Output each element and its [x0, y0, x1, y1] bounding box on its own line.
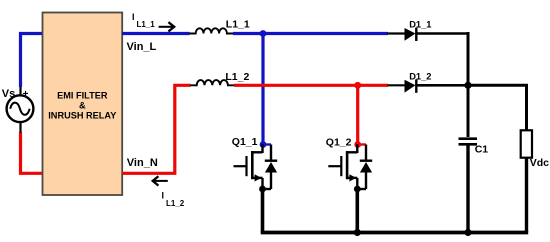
current arrow I_L1_2	[153, 176, 168, 185]
wire blue Q1_1 drain branch	[261, 34, 264, 145]
node drain blue dot	[260, 141, 267, 148]
svg-text:L1_1: L1_1	[226, 18, 250, 30]
node rail junction Q1_2	[354, 229, 361, 236]
diode D1_2	[388, 79, 469, 92]
svg-text:Vs: Vs	[2, 88, 15, 100]
svg-text:I: I	[132, 12, 135, 22]
mosfet Q1_1	[234, 141, 278, 192]
svg-text:C1: C1	[475, 144, 489, 156]
svg-text:D1_1: D1_1	[409, 20, 431, 30]
svg-text:L1_2: L1_2	[225, 71, 249, 83]
svg-text:Vdc: Vdc	[530, 157, 549, 169]
svg-text:L1_1: L1_1	[137, 20, 156, 29]
svg-text:Vin_L: Vin_L	[127, 41, 157, 53]
node rail junction C1	[464, 229, 471, 236]
load Vdc	[521, 130, 532, 232]
wire DC bus to Vdc branch	[468, 85, 527, 130]
mosfet Q1_2	[328, 141, 372, 192]
wire red inductor L1_2 to diode D1_2	[234, 84, 388, 87]
node drain red dot	[354, 141, 361, 148]
wire blue inductor L1_1 to diode D1_1	[233, 32, 388, 35]
svg-text:D1_2: D1_2	[409, 72, 431, 82]
svg-text:Q1_1: Q1_1	[232, 136, 258, 148]
svg-text:L1_2: L1_2	[166, 199, 185, 208]
wire blue Vin_L to inductor L1_1	[122, 32, 190, 35]
wire D1_1 output down to DC bus node	[467, 34, 468, 138]
wire bottom return rail	[261, 231, 529, 235]
node blue junction on top line	[260, 30, 267, 37]
body diode of Q1_1	[270, 145, 272, 162]
body diode of Q1_2	[365, 145, 367, 162]
inductor L1_1	[189, 28, 234, 33]
node red junction on second line	[354, 82, 361, 89]
current label I_L1_2	[162, 191, 185, 208]
svg-text:I: I	[162, 191, 165, 201]
current label I_L1_1	[132, 12, 155, 29]
node DC bus junction	[464, 82, 471, 89]
current arrow I_L1_1	[159, 22, 175, 31]
svg-text:INRUSH RELAY: INRUSH RELAY	[48, 110, 116, 120]
wire red Q1_2 drain branch	[356, 85, 359, 144]
svg-text:+: +	[23, 89, 29, 100]
node source junction dot	[259, 186, 266, 193]
diode D1_1	[388, 28, 469, 41]
inductor L1_2	[190, 80, 235, 85]
wire blue from source to EMI filter	[21, 34, 43, 88]
svg-text:Vin_N: Vin_N	[127, 157, 158, 169]
wire Q1_2 source to bottom rail	[355, 189, 359, 233]
svg-text:&: &	[79, 100, 86, 110]
wire red Vin_N riser to inductor L1_2	[122, 85, 191, 173]
svg-text:Q1_2: Q1_2	[326, 137, 352, 149]
wire red from source to EMI filter	[21, 132, 43, 173]
voltage source Vs	[7, 87, 34, 133]
wire Q1_1 source to bottom rail	[261, 189, 265, 233]
EMI filter block	[43, 13, 123, 196]
capacitor C1	[459, 139, 478, 232]
node source junction dot	[354, 186, 361, 193]
svg-text:EMI FILTER: EMI FILTER	[57, 90, 108, 100]
